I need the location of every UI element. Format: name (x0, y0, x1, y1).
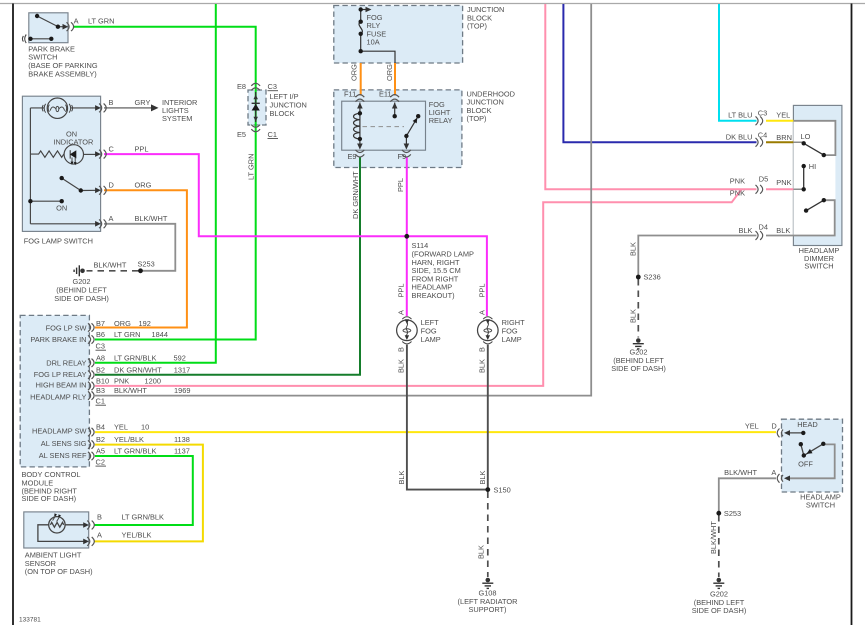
svg-text:SWITCH: SWITCH (806, 500, 835, 509)
svg-text:B6: B6 (96, 330, 105, 339)
svg-text:LAMP: LAMP (502, 335, 522, 344)
svg-text:B4: B4 (96, 423, 105, 432)
svg-text:FOG LP SW: FOG LP SW (46, 324, 87, 333)
svg-text:133781: 133781 (19, 617, 41, 624)
svg-text:A8: A8 (96, 353, 105, 362)
svg-text:BLK: BLK (478, 470, 487, 484)
svg-text:YEL: YEL (114, 423, 128, 432)
svg-text:SYSTEM: SYSTEM (162, 114, 192, 123)
svg-text:E9: E9 (348, 152, 357, 161)
svg-text:BLK: BLK (397, 359, 406, 373)
svg-text:PNK: PNK (730, 188, 745, 197)
svg-text:A: A (478, 310, 487, 315)
svg-text:YEL: YEL (776, 110, 790, 119)
svg-text:A: A (397, 310, 406, 315)
svg-text:1317: 1317 (174, 365, 190, 374)
svg-text:D4: D4 (759, 223, 768, 232)
svg-text:YEL/BLK: YEL/BLK (122, 531, 152, 540)
svg-text:1969: 1969 (174, 386, 190, 395)
svg-text:BLOCK: BLOCK (270, 109, 295, 118)
svg-text:A: A (771, 468, 776, 477)
svg-text:LO: LO (801, 132, 811, 141)
svg-text:B2: B2 (96, 435, 105, 444)
svg-text:LT GRN/BLK: LT GRN/BLK (122, 513, 165, 522)
svg-text:BLK: BLK (629, 309, 638, 323)
svg-text:ORG: ORG (350, 64, 359, 81)
svg-text:PNK: PNK (730, 177, 745, 186)
svg-text:SIDE OF DASH): SIDE OF DASH) (692, 606, 747, 615)
svg-text:PPL: PPL (135, 145, 149, 154)
svg-text:A5: A5 (96, 447, 105, 456)
svg-text:BREAKOUT): BREAKOUT) (412, 291, 455, 300)
svg-text:YEL: YEL (745, 422, 759, 431)
svg-text:10A: 10A (367, 38, 380, 47)
svg-text:C3: C3 (96, 342, 105, 351)
svg-text:E5: E5 (237, 130, 246, 139)
svg-text:HEADLAMP SW: HEADLAMP SW (32, 426, 87, 435)
svg-text:ORG: ORG (135, 181, 152, 190)
svg-text:D: D (771, 422, 776, 431)
svg-text:FOG LP RELAY: FOG LP RELAY (34, 370, 87, 379)
svg-text:FOG LAMP SWITCH: FOG LAMP SWITCH (24, 236, 93, 245)
svg-text:HEAD: HEAD (797, 420, 818, 429)
svg-text:PNK: PNK (776, 178, 791, 187)
svg-text:C4: C4 (758, 130, 767, 139)
svg-text:BLK: BLK (739, 226, 753, 235)
svg-text:F11: F11 (344, 90, 356, 99)
svg-text:B2: B2 (96, 365, 105, 374)
svg-text:ORG: ORG (114, 319, 131, 328)
svg-text:BLK: BLK (629, 242, 638, 256)
svg-text:LT GRN: LT GRN (247, 154, 256, 180)
svg-text:GRY: GRY (135, 98, 151, 107)
svg-text:592: 592 (174, 353, 186, 362)
svg-text:B: B (397, 347, 406, 352)
svg-text:BLK: BLK (397, 470, 406, 484)
svg-text:DK BLU: DK BLU (726, 133, 753, 142)
svg-text:SWITCH: SWITCH (804, 262, 833, 271)
svg-text:BLK/WHT: BLK/WHT (724, 468, 757, 477)
svg-text:LT GRN: LT GRN (88, 17, 114, 26)
svg-text:LT GRN: LT GRN (114, 330, 140, 339)
svg-text:C3: C3 (268, 82, 277, 91)
svg-text:S236: S236 (644, 273, 661, 282)
svg-text:BRAKE ASSEMBLY): BRAKE ASSEMBLY) (28, 70, 96, 79)
svg-text:192: 192 (139, 319, 151, 328)
svg-text:LT GRN/BLK: LT GRN/BLK (114, 353, 157, 362)
svg-text:YEL/BLK: YEL/BLK (114, 435, 144, 444)
svg-text:BLK/WHT: BLK/WHT (94, 261, 127, 270)
svg-text:E11: E11 (379, 90, 392, 99)
svg-text:ON: ON (56, 203, 67, 212)
svg-text:LT BLU: LT BLU (728, 110, 752, 119)
svg-text:(TOP): (TOP) (467, 22, 487, 31)
svg-text:S253: S253 (724, 509, 741, 518)
svg-text:D: D (109, 181, 114, 190)
svg-text:HEADLAMP RLY: HEADLAMP RLY (30, 393, 86, 402)
svg-text:C3: C3 (758, 108, 767, 117)
svg-text:(TOP): (TOP) (467, 114, 487, 123)
svg-text:BLK/WHT: BLK/WHT (135, 214, 168, 223)
svg-text:(ON TOP OF DASH): (ON TOP OF DASH) (25, 567, 93, 576)
svg-text:C1: C1 (96, 397, 105, 406)
svg-text:BLK: BLK (478, 359, 487, 373)
svg-text:PARK BRAKE IN: PARK BRAKE IN (30, 335, 86, 344)
svg-text:DRL RELAY: DRL RELAY (46, 358, 86, 367)
svg-text:C1: C1 (268, 130, 277, 139)
svg-text:PPL: PPL (397, 284, 406, 298)
svg-text:AL SENS SIG: AL SENS SIG (41, 439, 87, 448)
svg-text:LAMP: LAMP (421, 335, 441, 344)
svg-text:B: B (97, 513, 102, 522)
svg-text:A: A (74, 17, 79, 26)
svg-text:1200: 1200 (145, 377, 161, 386)
svg-text:B: B (109, 98, 114, 107)
svg-text:F9: F9 (398, 152, 407, 161)
svg-text:1844: 1844 (152, 330, 168, 339)
svg-text:BRN: BRN (776, 133, 792, 142)
svg-text:A: A (109, 214, 114, 223)
svg-text:ORG: ORG (385, 64, 394, 81)
svg-text:BLK/WHT: BLK/WHT (709, 521, 718, 554)
svg-text:E8: E8 (237, 82, 246, 91)
svg-text:BLK: BLK (776, 226, 790, 235)
svg-text:C: C (109, 145, 115, 154)
svg-text:RELAY: RELAY (429, 116, 453, 125)
svg-text:PNK: PNK (114, 377, 129, 386)
svg-text:BLK: BLK (477, 545, 486, 559)
svg-text:B: B (478, 347, 487, 352)
svg-text:HIGH BEAM IN: HIGH BEAM IN (36, 381, 87, 390)
svg-text:B3: B3 (96, 386, 105, 395)
svg-text:SIDE OF DASH): SIDE OF DASH) (54, 294, 109, 303)
svg-text:S253: S253 (138, 260, 155, 269)
svg-text:1137: 1137 (174, 447, 190, 456)
svg-text:BLK/WHT: BLK/WHT (114, 386, 147, 395)
svg-text:S150: S150 (494, 485, 511, 494)
svg-text:D5: D5 (759, 175, 768, 184)
svg-text:C2: C2 (96, 458, 105, 467)
svg-text:PPL: PPL (396, 178, 405, 192)
svg-text:SIDE OF DASH): SIDE OF DASH) (22, 494, 77, 503)
svg-text:PPL: PPL (478, 284, 487, 298)
svg-text:DK GRN/WHT: DK GRN/WHT (351, 171, 360, 219)
svg-text:HI: HI (809, 162, 816, 171)
svg-text:AL SENS REF: AL SENS REF (39, 451, 87, 460)
svg-text:A: A (97, 531, 102, 540)
svg-text:OFF: OFF (798, 459, 813, 468)
svg-text:B10: B10 (96, 377, 109, 386)
svg-text:B7: B7 (96, 319, 105, 328)
svg-text:1138: 1138 (174, 435, 190, 444)
svg-text:10: 10 (141, 423, 149, 432)
svg-text:INDICATOR: INDICATOR (53, 138, 93, 147)
svg-text:SIDE OF DASH): SIDE OF DASH) (611, 364, 666, 373)
svg-text:SUPPORT): SUPPORT) (468, 605, 506, 614)
svg-text:LT GRN/BLK: LT GRN/BLK (114, 447, 157, 456)
svg-text:DK GRN/WHT: DK GRN/WHT (114, 365, 162, 374)
